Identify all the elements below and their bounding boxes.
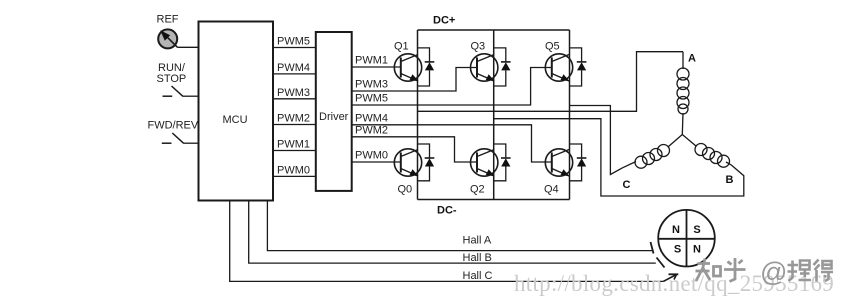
wire PWM0 MCU-Driver xyxy=(273,175,316,177)
diode D2 (across Q2) xyxy=(494,144,511,181)
wire PWM3 MCU-Driver xyxy=(273,98,316,100)
wire PWM2 Driver to Q2 base xyxy=(352,137,477,162)
diode D0 (across Q0) xyxy=(418,144,435,181)
switch S1 RUN/STOP xyxy=(163,95,173,97)
transistor Q3 xyxy=(471,41,498,82)
svg-text:@: @ xyxy=(760,257,787,287)
wire PWM0 Driver to Q0 base xyxy=(352,161,401,163)
wire PWM5 MCU-Driver xyxy=(273,47,316,49)
wire phase C (leg3 to motor coil C) xyxy=(570,106,623,175)
diode D5 (across Q5) xyxy=(570,48,587,86)
transistor Q5 xyxy=(545,41,573,82)
wire phase A (leg1 to motor coil A) xyxy=(418,52,684,112)
hall sensor tick A xyxy=(651,242,654,254)
motor winding A (coil) xyxy=(677,52,696,135)
wire PWM1 MCU-Driver xyxy=(273,150,316,152)
wire PWM1 Driver to Q1 base xyxy=(352,66,401,68)
hall sensor tick B xyxy=(657,258,665,268)
wire PWM2 MCU-Driver xyxy=(273,124,316,126)
char hu xyxy=(724,258,746,282)
transistor Q0 xyxy=(394,149,421,196)
wire PWM3 Driver to Q3 base xyxy=(352,68,477,92)
wire FWD/REV to MCU xyxy=(184,142,199,144)
MCU hall vertical 2 xyxy=(249,201,656,264)
wire RUN/STOP to MCU xyxy=(183,95,199,97)
wire PWM4 MCU-Driver xyxy=(273,73,316,75)
motor winding C (coil) xyxy=(623,135,683,192)
char zhi xyxy=(696,259,711,282)
motor winding B (coil) xyxy=(682,135,733,187)
leg 2 vertical xyxy=(493,30,495,200)
rotor magnet xyxy=(658,210,715,267)
wire PWM5 Driver to Q5 base xyxy=(352,68,552,106)
transistor Q4 xyxy=(544,149,573,196)
MCU hall vertical 3 xyxy=(267,201,652,251)
char nie xyxy=(788,261,799,282)
watermark csdn url xyxy=(514,271,834,297)
DC+ rail xyxy=(418,29,570,31)
REF wiper arrow xyxy=(163,33,178,48)
transistor Q1 xyxy=(394,41,422,82)
wire PWM4 Driver to Q4 base xyxy=(352,125,552,162)
wire phase B (leg2 to motor coil B) xyxy=(494,119,744,196)
diode D1 (across Q1) xyxy=(418,48,435,86)
Driver U2 box xyxy=(316,32,352,191)
leg 1 vertical xyxy=(417,30,419,200)
transistor Q2 xyxy=(470,149,498,196)
hall sensor arrow C xyxy=(663,275,676,282)
switch S2 FWD/REV xyxy=(162,142,172,144)
diode D4 (across Q4) xyxy=(570,144,587,181)
DC- rail xyxy=(418,199,570,201)
char de xyxy=(814,260,820,282)
MCU hall vertical 1 xyxy=(230,201,664,282)
potentiometer REF xyxy=(158,29,177,48)
wire REF to MCU xyxy=(178,46,199,48)
diode D3 (across Q3) xyxy=(494,48,511,86)
MCU U1 box xyxy=(199,22,274,201)
leg 3 vertical xyxy=(569,30,571,200)
